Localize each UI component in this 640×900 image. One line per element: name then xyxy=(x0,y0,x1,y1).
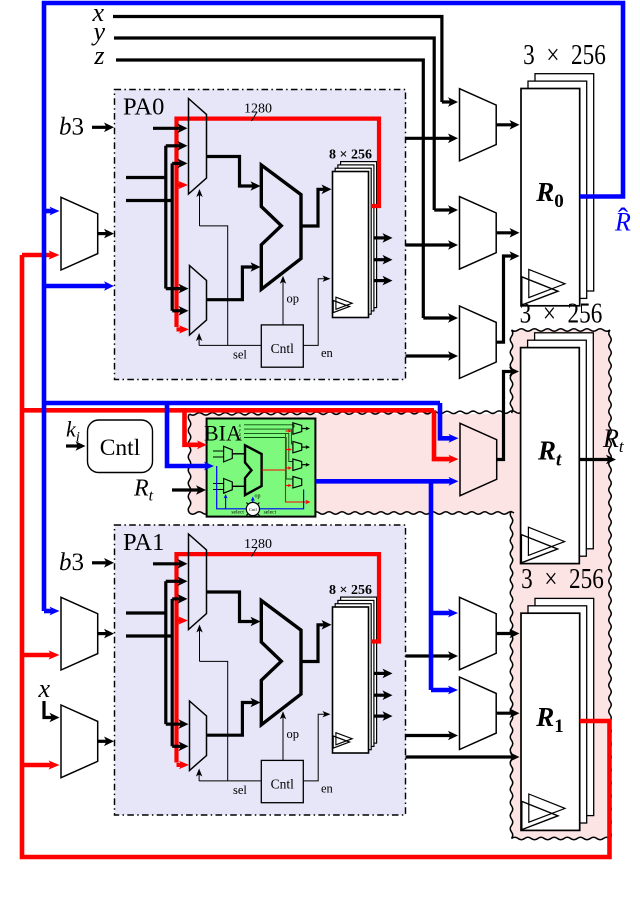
svg-text:Cntl: Cntl xyxy=(271,341,295,356)
svg-text:select: select xyxy=(264,510,277,516)
arrow y into R0 mux2 xyxy=(434,208,452,211)
input stub upper PA0 xyxy=(126,176,166,179)
blue BIA output bus xyxy=(315,479,452,484)
vertical bus B PA0 xyxy=(171,163,174,310)
sel branch to mux A PA0 xyxy=(200,226,228,346)
register file output arrows PA1 xyxy=(375,672,387,675)
arrow bus B to mux B PA1 xyxy=(172,745,182,748)
clock triangle of register file PA1 (back) xyxy=(336,733,352,745)
left mux lower output into PA1 xyxy=(98,740,108,743)
blue bus top and left xyxy=(44,3,623,611)
sel wire PA0 xyxy=(199,344,261,346)
arrow bus A to mux A PA0 xyxy=(166,144,182,147)
svg-text:3 × 256: 3 × 256 xyxy=(520,297,603,329)
wire y top xyxy=(114,38,434,210)
svg-text:8 × 256: 8 × 256 xyxy=(329,583,372,598)
processing array box PA0 xyxy=(115,90,406,380)
control box Cntl (rounded) xyxy=(88,420,153,473)
vertical bus A PA0 xyxy=(164,146,167,289)
torn edge column xyxy=(510,329,611,840)
BIA box xyxy=(207,419,316,517)
left mux feeding PA0 xyxy=(61,197,98,270)
BIA blue loop xyxy=(217,466,304,509)
bus width slash PA0 xyxy=(252,112,258,121)
svg-text:b: b xyxy=(59,114,72,141)
mux R0 middle output xyxy=(496,231,513,234)
blue branch down to R1 muxes xyxy=(429,481,434,690)
svg-text:1280: 1280 xyxy=(244,102,272,117)
mux Rt xyxy=(460,423,497,495)
ALU output wire PA0 xyxy=(301,189,326,226)
blue arrow into left mux (PA0) xyxy=(44,209,54,214)
wire x bottom into lower mux xyxy=(44,701,54,718)
clock triangle R0 xyxy=(522,277,558,305)
mux R0 lower output wire up into R0 xyxy=(496,256,513,342)
svg-text:op: op xyxy=(255,494,261,500)
vertical bus A PA1 xyxy=(164,581,167,724)
left mux feeding PA1 (upper) xyxy=(61,597,98,670)
BIA top input lines xyxy=(244,425,294,427)
arrow ki into Cntl xyxy=(66,444,80,447)
blue arrow into R1 mux upper xyxy=(431,611,452,616)
processing array box PA1 xyxy=(115,525,406,815)
register R0 stack sheets xyxy=(535,74,594,291)
arrow bus A to mux A PA1 xyxy=(166,580,182,583)
clock triangle R0 (back sheet) xyxy=(529,269,565,297)
arrow bus A to mux B PA1 xyxy=(166,722,183,725)
svg-text:PA0: PA0 xyxy=(123,93,164,120)
red arrow into left mux lower (PA1) xyxy=(22,763,53,768)
torn pink region fill (register column) xyxy=(512,329,612,840)
svg-text:Cntl: Cntl xyxy=(249,507,258,512)
red arrow into mux A PA0 xyxy=(177,183,183,187)
arrow z into R0 mux3 xyxy=(423,316,452,319)
clock triangle R1 xyxy=(522,801,558,829)
red branch into BIA xyxy=(185,410,202,445)
PA1 output stub 1 xyxy=(406,654,453,657)
arrow Rt into BIA xyxy=(172,488,200,491)
Rt output arrow xyxy=(579,458,610,461)
left mux output into PA0 xyxy=(98,232,108,235)
input mux B PA0 xyxy=(190,266,207,336)
mux B output wire PA1 xyxy=(207,703,255,736)
PA0 output stub 1 xyxy=(406,137,453,140)
input wire b3 stub PA0 xyxy=(153,127,182,130)
register file output arrows PA0 xyxy=(375,236,387,239)
red feedback bus 1280 PA0 xyxy=(177,119,380,327)
BIA small mux input stubs xyxy=(213,450,224,452)
torn pink region fill (BIA band) xyxy=(188,414,530,514)
input stub upper PA1 xyxy=(126,611,166,614)
sel branch to mux A PA1 xyxy=(200,661,228,781)
svg-text:BIA: BIA xyxy=(204,421,242,446)
BIA right mux output arrows xyxy=(302,428,308,430)
svg-text:en: en xyxy=(321,782,334,796)
control box Cntl PA1 xyxy=(261,760,303,802)
input mux A PA0 xyxy=(189,99,207,195)
input mux B PA1 xyxy=(190,701,207,771)
svg-text:3 × 256: 3 × 256 xyxy=(523,38,606,70)
red arrow into left mux (PA0) xyxy=(22,253,53,258)
mux A output wire PA0 xyxy=(207,157,255,187)
input stub lower PA1 xyxy=(126,634,172,637)
clock triangle of register file PA0 (back) xyxy=(336,297,352,309)
register Rt stack sheets xyxy=(535,333,594,549)
svg-text:sel: sel xyxy=(233,348,247,362)
torn edge band left xyxy=(188,414,191,513)
svg-text:8 × 256: 8 × 256 xyxy=(329,148,372,163)
BIA left small mux 2 xyxy=(224,479,233,494)
arrow bus B to mux B PA0 xyxy=(172,309,182,312)
op wire PA0 xyxy=(282,281,284,325)
red arrow into mux B PA1 xyxy=(177,763,184,767)
torn edge band top xyxy=(190,411,523,415)
sel wire PA1 xyxy=(199,780,261,782)
svg-text:x: x xyxy=(37,674,50,703)
blue branch into Rt mux xyxy=(440,403,453,438)
left mux upper output into PA1 xyxy=(98,632,108,635)
arrow b3 into PA1 xyxy=(92,561,108,564)
mux R0 middle xyxy=(460,197,497,270)
torn edge band bottom xyxy=(190,512,515,515)
svg-text:PA1: PA1 xyxy=(123,529,164,556)
BIA mini butterfly ALU xyxy=(245,445,262,495)
clock triangle of register file PA0 xyxy=(333,301,349,313)
clock triangle R1 (back sheet) xyxy=(529,794,565,822)
op wire PA1 xyxy=(282,716,284,760)
wire z top xyxy=(116,60,423,318)
mux A output wire PA1 xyxy=(207,592,255,622)
BIA right small muxes xyxy=(293,423,302,434)
PA1 output stub 2 xyxy=(406,734,453,737)
mux R0 upper output xyxy=(496,123,513,126)
ALU output wire PA1 xyxy=(301,625,326,662)
svg-text:op: op xyxy=(287,292,300,306)
blue arrow into R1 mux lower xyxy=(431,688,452,693)
svg-text:op: op xyxy=(287,727,300,741)
svg-text:Cntl: Cntl xyxy=(271,777,295,792)
register file 8x256 stack PA0 xyxy=(341,162,377,308)
svg-text:select: select xyxy=(231,510,244,516)
blue branch into BIA xyxy=(167,403,208,466)
blue arrow into left mux upper (PA1) xyxy=(44,609,54,614)
BIA control circle xyxy=(246,502,259,515)
svg-text:3: 3 xyxy=(72,549,85,576)
arrow bus B to mux A PA1 xyxy=(172,597,181,600)
input mux A PA1 xyxy=(189,534,207,630)
BIA left small mux 1 xyxy=(224,446,233,462)
red arrow into mux A PA1 xyxy=(177,618,183,622)
svg-text:z: z xyxy=(93,41,104,70)
PA0 output stub 2 xyxy=(406,243,453,246)
mux R1 upper xyxy=(460,597,497,669)
butterfly ALU PA0 xyxy=(261,165,301,289)
red feedback bus 1280 PA1 xyxy=(177,554,380,762)
wire x top xyxy=(113,17,442,103)
blue arrow into PA0 xyxy=(44,284,108,289)
mux R1 upper output xyxy=(496,632,513,635)
BIA red result bus xyxy=(262,469,286,471)
BIA mini mux outputs to ALU xyxy=(232,453,245,455)
mux R1 lower output xyxy=(496,712,513,715)
bus width slash PA1 xyxy=(252,548,258,557)
red bus left vertical xyxy=(22,255,610,857)
mux R1 lower xyxy=(460,677,497,750)
clock triangle Rt xyxy=(521,535,557,563)
red bus middle horizontal xyxy=(22,408,434,413)
clock triangle of register file PA1 xyxy=(333,736,349,748)
mux R0 lower xyxy=(460,306,497,378)
red branch into Rt mux xyxy=(434,410,453,459)
control box Cntl PA0 xyxy=(261,325,303,367)
svg-text:3 × 256: 3 × 256 xyxy=(521,563,604,595)
PA1 output stub 3 direct into R1 xyxy=(406,755,514,758)
register file 8x256 stack PA1 xyxy=(341,597,377,743)
butterfly ALU PA1 xyxy=(261,601,301,725)
red arrow into mux B PA0 xyxy=(177,327,184,331)
svg-text:b: b xyxy=(59,549,72,576)
clock triangle Rt (back sheet) xyxy=(528,527,564,555)
arrow bus A to mux B PA0 xyxy=(166,287,183,290)
vertical bus B PA1 xyxy=(171,599,174,746)
mux R0 upper xyxy=(460,89,497,161)
svg-text:1280: 1280 xyxy=(244,537,272,552)
blue bus middle horizontal xyxy=(44,401,440,406)
en wire PA0 xyxy=(303,279,325,346)
mux Rt output wire up into Rt xyxy=(497,372,513,460)
left mux feeding PA1 (lower) xyxy=(61,705,98,778)
mux B output wire PA0 xyxy=(207,267,255,300)
svg-text:ˆ: ˆ xyxy=(618,202,628,235)
svg-text:Cntl: Cntl xyxy=(100,435,141,461)
arrow b3 into PA0 xyxy=(92,126,108,129)
input wire b3 stub PA1 xyxy=(153,562,182,565)
svg-text:3: 3 xyxy=(72,114,85,141)
svg-text:sel: sel xyxy=(233,783,247,797)
PA0 output stub 3 xyxy=(406,354,453,357)
input stub lower PA0 xyxy=(126,199,172,202)
svg-text:en: en xyxy=(321,346,334,360)
en wire PA1 xyxy=(303,714,325,781)
register R1 stack sheets xyxy=(535,598,594,815)
red arrow into left mux upper (PA1) xyxy=(22,653,53,658)
arrow bus B to mux A PA0 xyxy=(172,162,181,165)
arrow x into R0 mux1 xyxy=(442,100,452,103)
